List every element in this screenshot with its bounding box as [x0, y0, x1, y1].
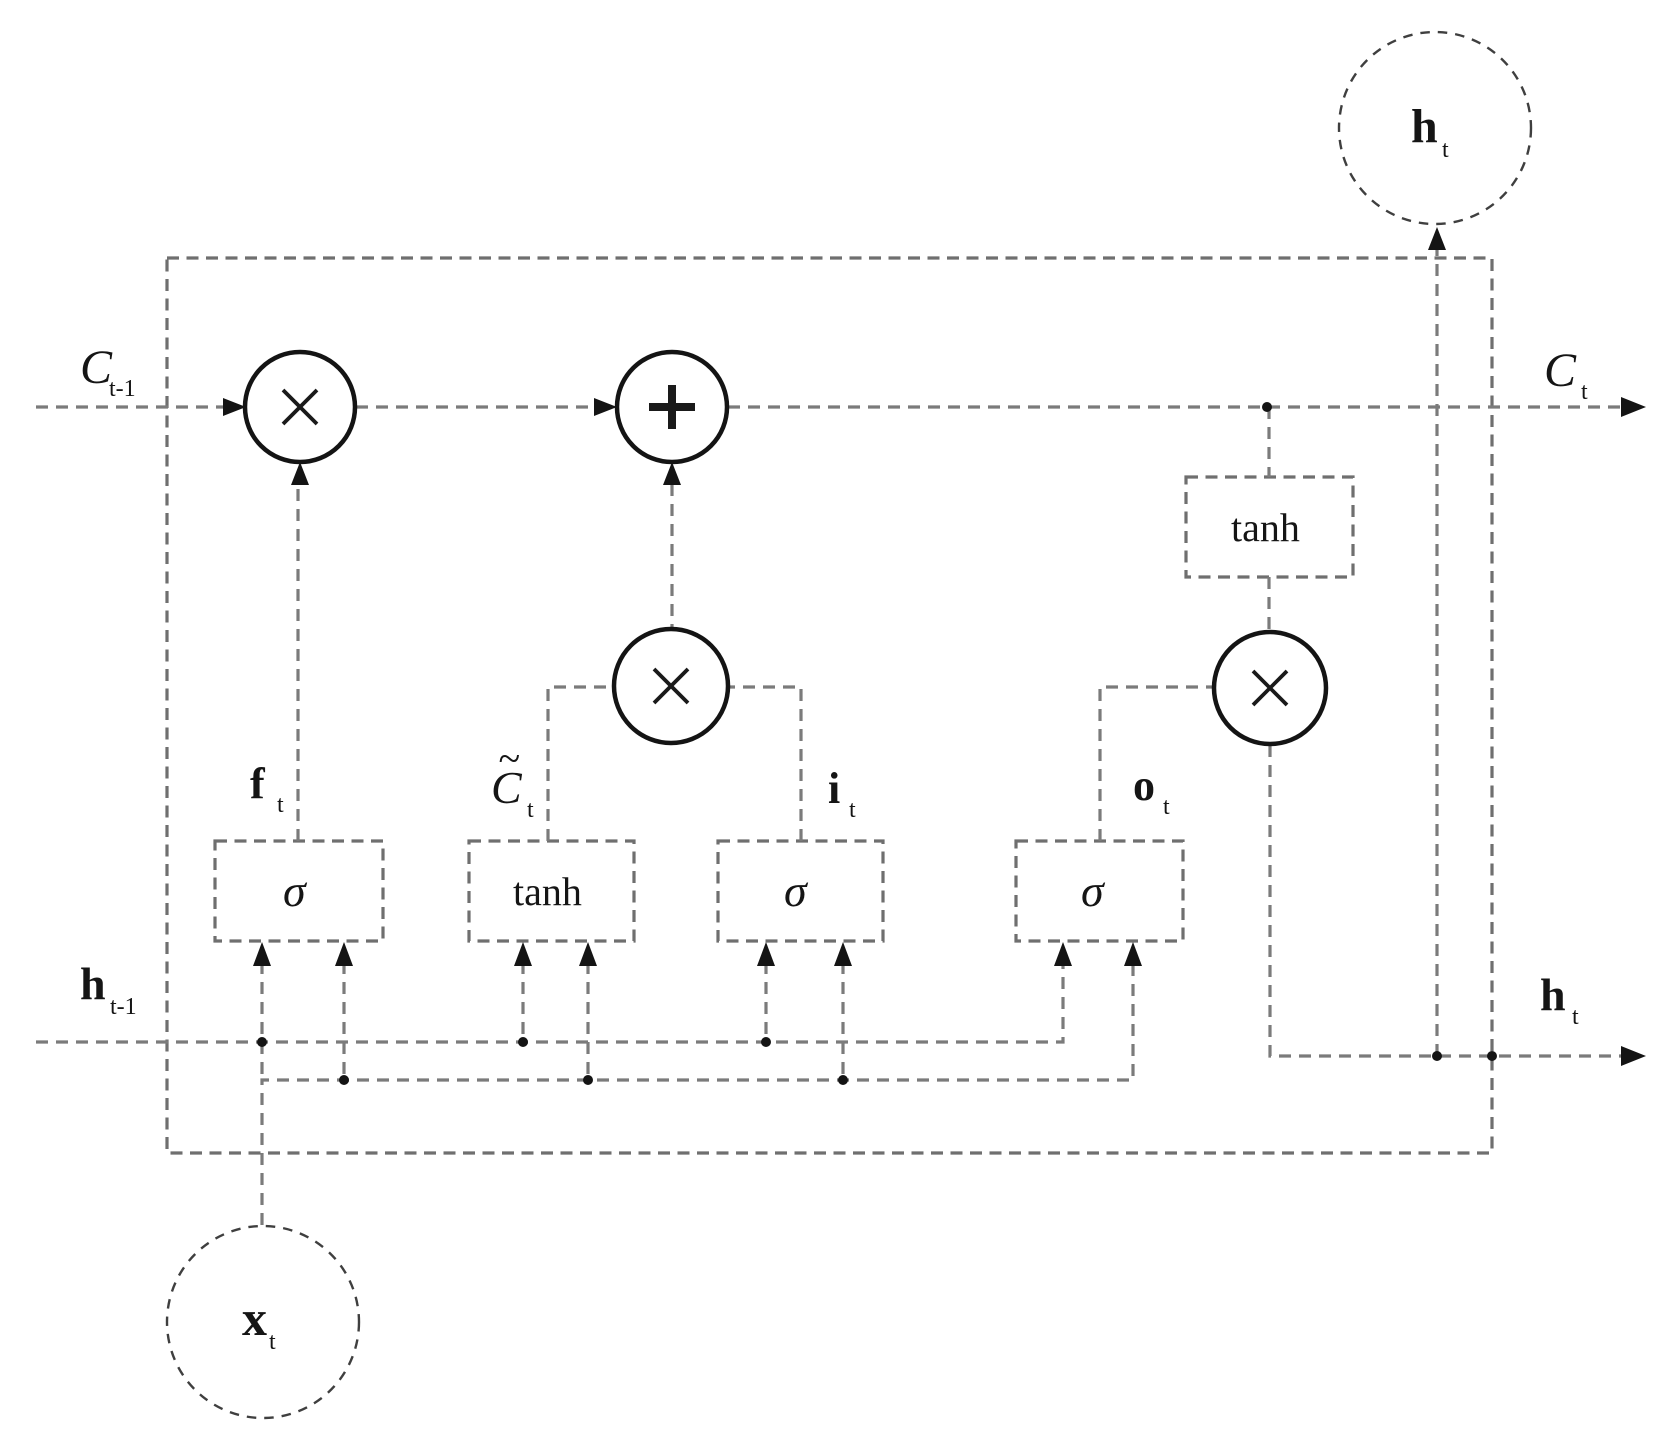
svg-text:i: i [828, 764, 840, 813]
svg-text:t: t [277, 792, 284, 818]
svg-text:x: x [242, 1290, 267, 1346]
svg-text:tanh: tanh [513, 869, 582, 914]
svg-text:σ: σ [283, 865, 308, 916]
svg-text:t: t [269, 1329, 276, 1355]
svg-text:o: o [1133, 761, 1155, 810]
svg-text:t: t [527, 797, 534, 823]
svg-text:h: h [1540, 969, 1566, 1020]
svg-text:σ: σ [1081, 865, 1106, 916]
svg-text:t: t [849, 797, 856, 823]
svg-text:C: C [1544, 344, 1577, 397]
svg-text:t-1: t-1 [109, 376, 136, 402]
svg-text:σ: σ [784, 865, 809, 916]
svg-text:t: t [1442, 137, 1449, 163]
svg-text:~: ~ [498, 736, 520, 781]
svg-text:h: h [1411, 100, 1438, 153]
svg-text:h: h [80, 958, 106, 1009]
svg-text:t: t [1163, 794, 1170, 820]
svg-text:t: t [1581, 379, 1588, 405]
svg-text:t-1: t-1 [110, 994, 137, 1020]
svg-text:tanh: tanh [1231, 505, 1300, 550]
svg-text:f: f [250, 759, 266, 808]
svg-text:t: t [1572, 1004, 1579, 1030]
